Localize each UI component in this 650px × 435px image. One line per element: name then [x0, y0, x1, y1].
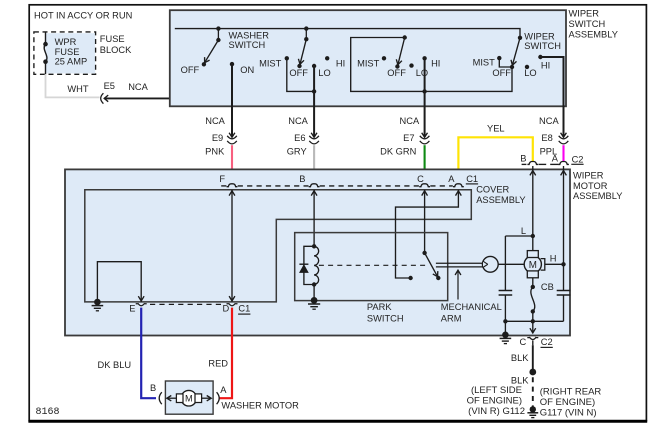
svg-text:E6: E6: [294, 133, 305, 143]
label D: [222, 303, 229, 313]
wire B into motor box: [530, 166, 536, 236]
contact sw2 LO: [409, 63, 413, 67]
label C2 bottom: [541, 337, 553, 347]
wire sw3 HI down to E8: [540, 57, 563, 137]
connector C2 dashed line: [522, 163, 559, 165]
label DK GRN: [380, 146, 416, 156]
svg-text:E: E: [129, 303, 135, 313]
svg-text:OFF: OFF: [181, 65, 200, 75]
svg-text:HOT IN ACCY OR RUN: HOT IN ACCY OR RUN: [34, 11, 132, 21]
svg-text:M: M: [529, 260, 537, 271]
label WPR FUSE 25 AMP: [55, 37, 88, 66]
terminal C of C2: [527, 337, 538, 345]
wiper switch assembly box: [170, 10, 566, 106]
label C C1: [417, 174, 424, 184]
wire NCA E9 black: [231, 64, 233, 137]
label F: [219, 174, 225, 184]
wire NCA from E5 to wiper switch assembly: [104, 29, 175, 99]
svg-text:ASSEMBLY: ASSEMBLY: [573, 191, 622, 201]
label OFF washer: [181, 65, 200, 75]
label MIST sw1: [259, 58, 282, 68]
svg-text:C1: C1: [466, 174, 478, 184]
wire YEL: [458, 137, 532, 183]
wire A to park switch contact: [396, 190, 462, 278]
cover assembly outline: [85, 190, 472, 302]
connector E9: [227, 133, 237, 144]
label DK BLU: [98, 360, 132, 370]
label NCA E7: [400, 116, 420, 126]
contact park switch run: [408, 276, 412, 280]
mechanical link dashed line: [319, 264, 427, 266]
label LO sw3: [524, 68, 536, 78]
ground at park switch coil: [308, 297, 320, 309]
svg-text:MOTOR: MOTOR: [573, 181, 608, 191]
wire GRY: [313, 145, 315, 184]
svg-text:B: B: [150, 383, 156, 393]
contact sw3 MIST: [497, 56, 501, 60]
label B washer: [150, 383, 156, 393]
svg-text:NCA: NCA: [400, 116, 420, 126]
wiper sw1 arm: [298, 39, 306, 64]
svg-text:BLK: BLK: [511, 353, 529, 363]
label E5: [104, 81, 115, 91]
svg-text:L: L: [521, 226, 526, 236]
svg-text:E7: E7: [403, 133, 414, 143]
wiper motor assembly box: [65, 169, 570, 335]
wire capacitor left to ground rail: [504, 295, 506, 335]
label WASHER SWITCH: [229, 30, 270, 49]
label RED: [208, 359, 228, 369]
svg-text:MIST: MIST: [357, 58, 380, 68]
svg-text:WIPER: WIPER: [573, 171, 604, 181]
wire RED: [219, 308, 232, 399]
svg-text:WASHER MOTOR: WASHER MOTOR: [221, 400, 299, 410]
label LO sw2: [416, 68, 428, 78]
fuse WPR 25 AMP: [43, 32, 48, 74]
label C1 top: [466, 174, 478, 184]
wire DK GRN: [424, 145, 426, 184]
contact park switch upper: [422, 251, 426, 255]
wire F to D: [229, 190, 235, 301]
terminal B of C2: [527, 162, 538, 165]
svg-text:WPR: WPR: [55, 37, 77, 47]
terminal A of C2: [558, 162, 569, 165]
label CB: [541, 282, 554, 292]
connector E8: [559, 133, 569, 144]
wire coil left branch: [304, 246, 314, 284]
wire sw2 HI down to E7: [424, 58, 426, 137]
label OFF sw3: [492, 68, 511, 78]
contact sw1 OFF: [297, 64, 301, 68]
svg-text:LO: LO: [416, 68, 428, 78]
wire B to relay coil: [311, 190, 317, 246]
wire motor to circuit breaker: [532, 278, 534, 287]
terminal F of C1: [227, 184, 238, 187]
motor M1 wiper: [524, 236, 545, 278]
svg-text:NCA: NCA: [539, 116, 559, 126]
terminal E of C1: [136, 303, 147, 306]
label C1 bottom: [238, 304, 250, 315]
svg-text:SWITCH: SWITCH: [569, 19, 606, 29]
washer motor arrow left: [167, 396, 177, 401]
junction sw1 LO: [312, 89, 316, 93]
label LO sw1: [318, 68, 330, 78]
svg-text:A: A: [220, 385, 227, 395]
label NCA E8: [539, 116, 559, 126]
capacitor C-right: [557, 291, 571, 296]
svg-text:WIPER: WIPER: [569, 8, 600, 18]
label HI sw2: [431, 59, 440, 69]
wire WHT from fuse to E5: [46, 74, 100, 97]
label HI sw3: [541, 61, 550, 71]
wire ground rail: [505, 320, 563, 322]
svg-text:NCA: NCA: [205, 116, 225, 126]
contact sw2 MIST: [382, 56, 386, 60]
diode D1: [299, 264, 308, 272]
label A washer: [220, 385, 227, 395]
label E7: [403, 133, 414, 143]
label B C1: [299, 174, 305, 184]
label E9: [212, 133, 223, 143]
svg-text:YEL: YEL: [487, 123, 505, 133]
label MIST sw2: [357, 58, 380, 68]
ground at motor case: [500, 332, 512, 344]
contact washer OFF: [202, 62, 206, 66]
svg-text:OF ENGINE): OF ENGINE): [540, 397, 595, 408]
wire ground loop to E: [97, 262, 144, 302]
contact sw3 LO: [525, 65, 529, 69]
svg-text:25 AMP: 25 AMP: [55, 56, 88, 66]
connector E5: [101, 93, 109, 103]
svg-text:NCA: NCA: [128, 82, 148, 92]
label FUSE BLOCK: [100, 34, 132, 55]
wire PPL: [562, 145, 564, 162]
svg-text:PARK: PARK: [367, 302, 392, 312]
label WIPER SWITCH: [524, 32, 561, 51]
svg-text:8168: 8168: [36, 407, 60, 418]
park switch box: [295, 233, 448, 301]
wire BLK: [532, 345, 534, 372]
svg-text:HI: HI: [336, 59, 345, 69]
wire sw3 MIST to OFF: [499, 58, 512, 67]
wire motor H to A wire: [545, 263, 564, 265]
svg-text:GRY: GRY: [287, 146, 307, 156]
label BLK lower: [511, 375, 529, 385]
wiper sw2 arm: [396, 38, 404, 65]
wire BLK dashed: [532, 377, 534, 407]
svg-text:A: A: [552, 154, 559, 164]
label YEL: [487, 123, 505, 133]
svg-text:OFF: OFF: [387, 68, 406, 78]
label GRY: [287, 146, 307, 156]
washer motor M2: [176, 390, 201, 406]
svg-text:HI: HI: [541, 61, 550, 71]
contact sw1 HI: [325, 56, 329, 60]
label PNK: [205, 146, 225, 156]
label LEFT SIDE OF ENGINE VIN R G112: [467, 385, 525, 417]
wire L branch to capacitor: [505, 236, 532, 290]
circuit breaker CB: [531, 285, 535, 314]
svg-text:E8: E8: [541, 133, 552, 143]
terminal B washer motor: [159, 392, 162, 404]
node wiper sw2 pivot: [403, 35, 407, 39]
wire CB to C2 exit: [530, 311, 536, 333]
washer motor arrow right: [202, 396, 212, 401]
label E6: [294, 133, 305, 143]
svg-text:E9: E9: [212, 133, 223, 143]
svg-text:LO: LO: [524, 68, 536, 78]
svg-text:M: M: [185, 394, 193, 404]
svg-text:ASSEMBLY: ASSEMBLY: [569, 30, 618, 40]
label WIPER SWITCH ASSEMBLY: [569, 8, 618, 39]
label C2: [571, 154, 583, 164]
label A C2: [552, 154, 559, 164]
wire sw1 LO down to E6: [313, 66, 315, 137]
label WIPER MOTOR ASSEMBLY: [573, 171, 622, 201]
svg-text:ARM: ARM: [441, 313, 462, 323]
label HI sw1: [336, 59, 345, 69]
svg-text:SWITCH: SWITCH: [229, 40, 266, 50]
svg-text:WHT: WHT: [67, 84, 88, 94]
svg-text:C: C: [519, 337, 526, 347]
terminal A of C1: [453, 184, 464, 187]
relay coil: [312, 244, 319, 287]
node park switch arm pivot: [436, 276, 440, 280]
svg-text:OF ENGINE): OF ENGINE): [467, 396, 522, 407]
contact sw2 HI: [422, 56, 426, 60]
contact washer ON: [230, 62, 234, 66]
label NCA E6: [288, 116, 308, 126]
svg-text:COVER: COVER: [476, 185, 509, 195]
terminal C of C1: [419, 184, 430, 187]
wire A into motor box: [561, 166, 567, 290]
contact sw3 HI: [538, 55, 542, 59]
label RIGHT REAR OF ENGINE G117 VIN N: [540, 387, 602, 419]
svg-text:ASSEMBLY: ASSEMBLY: [476, 195, 525, 205]
node wiper sw3 pivot: [518, 36, 522, 40]
contact sw3 OFF: [510, 65, 514, 69]
svg-text:(VIN R) G112: (VIN R) G112: [468, 406, 525, 417]
svg-text:(RIGHT REAR: (RIGHT REAR: [540, 387, 602, 398]
svg-text:G117 (VIN N): G117 (VIN N): [540, 407, 597, 418]
connector E7: [420, 133, 430, 144]
wire capacitor right to ground rail: [563, 295, 565, 321]
node washer switch pivot: [216, 26, 220, 42]
splice: [529, 369, 536, 376]
svg-text:ON: ON: [240, 65, 254, 75]
svg-text:A: A: [448, 174, 455, 184]
svg-text:BLOCK: BLOCK: [100, 45, 132, 55]
park switch arm: [425, 253, 438, 277]
svg-text:RED: RED: [208, 359, 228, 369]
svg-text:D: D: [222, 303, 229, 313]
connector C1 top dashed line: [221, 185, 453, 187]
svg-text:DK BLU: DK BLU: [98, 360, 132, 370]
connector E6: [309, 133, 319, 144]
node L: [531, 234, 535, 238]
crank: [482, 256, 498, 272]
label H: [550, 253, 557, 263]
terminal B of C1: [309, 184, 320, 187]
label COVER ASSEMBLY: [476, 185, 525, 205]
label WHT: [67, 84, 88, 94]
svg-text:C2: C2: [541, 337, 553, 347]
callout arrow mechanical arm: [455, 270, 461, 299]
svg-text:MIST: MIST: [259, 58, 282, 68]
wire sw1 MIST to LO: [287, 58, 314, 91]
label E8: [541, 133, 552, 143]
junction sw2 HI wire: [422, 89, 426, 93]
svg-text:B: B: [299, 174, 305, 184]
washer switch arm: [205, 40, 219, 63]
wiper sw3 arm: [511, 38, 520, 65]
label ON washer: [240, 65, 254, 75]
svg-text:C: C: [417, 174, 424, 184]
label WASHER MOTOR: [221, 400, 299, 410]
svg-text:LO: LO: [318, 68, 330, 78]
label C C2: [519, 337, 526, 347]
label L: [521, 226, 526, 236]
label PPL: [540, 146, 558, 156]
wire DK BLU: [141, 308, 156, 399]
terminal A washer motor: [217, 392, 220, 404]
label BLK upper: [511, 353, 529, 363]
svg-text:MIST: MIST: [473, 58, 496, 68]
wire sw2 pivot loop: [351, 38, 512, 92]
label A C1: [448, 174, 455, 184]
svg-text:HI: HI: [431, 59, 440, 69]
wire crank shaft to motor: [498, 263, 524, 265]
label HOT IN ACCY OR RUN: [34, 11, 132, 21]
wire coil to ground: [313, 285, 315, 301]
svg-text:BLK: BLK: [511, 375, 529, 385]
junction ground rail left: [503, 319, 507, 323]
contact sw1 LO: [312, 64, 316, 68]
connector C1 bottom dashed line: [150, 303, 225, 305]
label B C2: [520, 154, 526, 164]
svg-text:(LEFT SIDE: (LEFT SIDE: [471, 385, 522, 396]
svg-text:SWITCH: SWITCH: [524, 41, 561, 51]
fuse block box: [34, 32, 96, 74]
terminal D of C1: [227, 303, 238, 306]
label NCA at E5: [128, 82, 148, 92]
svg-text:MECHANICAL: MECHANICAL: [441, 302, 502, 312]
node H: [561, 262, 565, 266]
label OFF sw2: [387, 68, 406, 78]
mechanical arm double line: [436, 263, 483, 267]
ground at cover assembly: [92, 299, 104, 311]
svg-text:SWITCH: SWITCH: [367, 313, 404, 323]
svg-text:OFF: OFF: [492, 68, 511, 78]
capacitor C-left: [499, 291, 513, 296]
wire PNK: [231, 145, 233, 184]
wire feed rail: [175, 29, 520, 38]
washer motor box: [165, 381, 213, 414]
svg-text:F: F: [219, 174, 225, 184]
node wiper sw1 pivot: [304, 26, 308, 41]
svg-text:NCA: NCA: [288, 116, 308, 126]
svg-text:CB: CB: [541, 282, 554, 292]
svg-text:E5: E5: [104, 81, 115, 91]
label 8168: [36, 407, 60, 418]
svg-text:PNK: PNK: [205, 146, 225, 156]
wire C to park switch: [422, 190, 428, 253]
label NCA E9: [205, 116, 225, 126]
ground G112 G117: [527, 406, 538, 417]
contact sw2 OFF: [395, 64, 399, 68]
label MIST sw3: [473, 58, 496, 68]
svg-text:OFF: OFF: [289, 68, 308, 78]
label MECHANICAL ARM: [441, 302, 502, 323]
svg-text:C1: C1: [238, 304, 250, 314]
label E: [129, 303, 135, 313]
svg-text:B: B: [520, 154, 526, 164]
contact sw1 MIST: [285, 56, 289, 60]
svg-text:FUSE: FUSE: [100, 34, 125, 44]
junction ground rail motor: [531, 319, 535, 323]
label PARK SWITCH: [367, 302, 404, 323]
svg-text:DK GRN: DK GRN: [380, 146, 416, 156]
label OFF sw1: [289, 68, 308, 78]
svg-text:C2: C2: [572, 154, 584, 164]
svg-text:H: H: [550, 253, 557, 263]
